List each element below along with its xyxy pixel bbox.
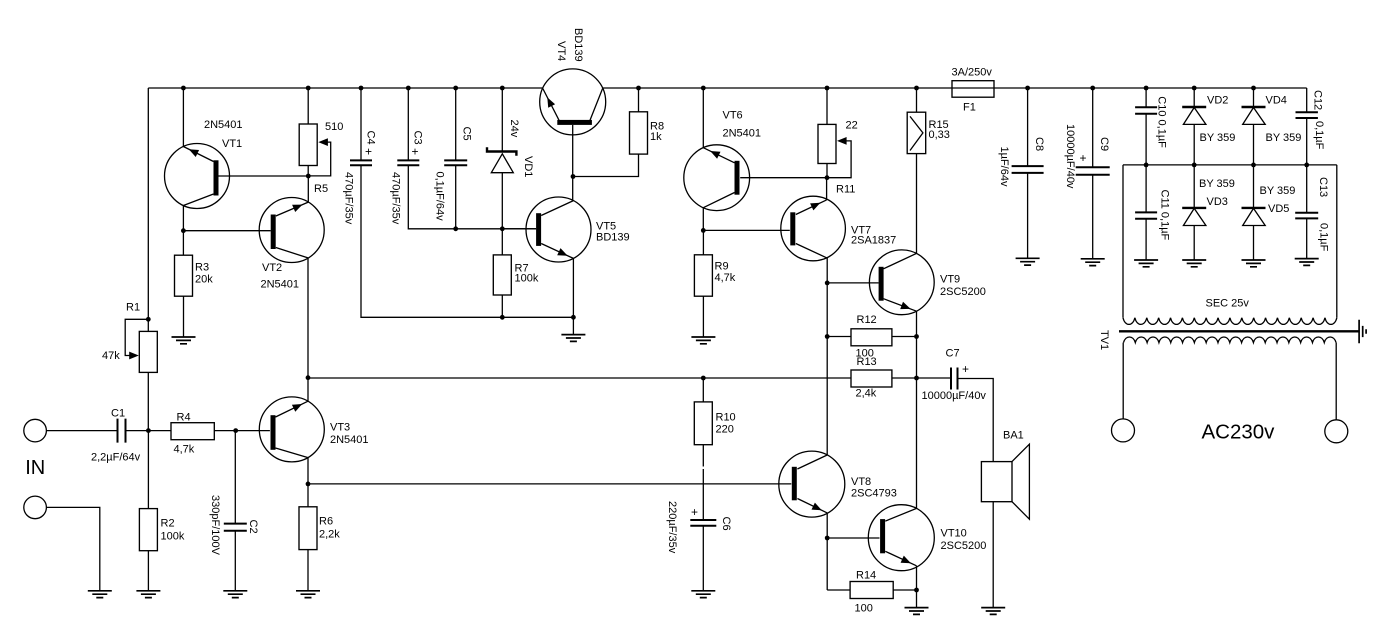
- wire: VD4 to mid rail: [1253, 124, 1255, 164]
- wire: R14 left lead: [827, 589, 850, 591]
- wire: rail to C4: [360, 88, 362, 160]
- resistor R9: [694, 255, 712, 296]
- transistor VT2 (2N5401): [259, 198, 324, 263]
- resistor R2: [139, 509, 157, 551]
- junction: C1/R1/R2/R4 node: [146, 428, 151, 433]
- rectifier diode VD4 (BY 359): [1242, 107, 1266, 124]
- fuse F1 (3A/250v): [952, 81, 994, 98]
- wire: VT1 base to R5 node: [219, 175, 309, 177]
- svg-text:BY 359: BY 359: [1266, 132, 1302, 144]
- resistor R15 (fusible) body: [907, 112, 926, 153]
- svg-text:1k: 1k: [650, 131, 662, 143]
- wire: VT8 emitter down: [826, 513, 828, 590]
- ground (C6): [691, 591, 715, 598]
- svg-text:VT3: VT3: [330, 422, 350, 434]
- transformer TV1 core: [1119, 330, 1359, 332]
- wire: R1 top lead: [147, 319, 149, 331]
- capacitor C3 (electrolytic): [397, 160, 419, 165]
- svg-text:0,33: 0,33: [929, 129, 950, 141]
- svg-text:R5: R5: [314, 183, 328, 195]
- transistor VT8 (2SC4793): [779, 451, 845, 517]
- wire: top positive supply rail: [148, 87, 1306, 89]
- svg-text:22: 22: [846, 120, 858, 132]
- arrow: R5 wiper: [318, 138, 328, 146]
- junction: ground bus/VT5 emitter: [571, 315, 576, 320]
- svg-text:24v: 24v: [508, 120, 520, 138]
- junction: R5/VT1 base/VT2 emitter: [306, 174, 311, 179]
- junction: VT6 collector/R9/VT7 base: [701, 228, 706, 233]
- junction: R7/ground bus: [500, 315, 505, 320]
- junction: rail/C4: [359, 86, 364, 91]
- wire: VT1 collector down: [182, 206, 184, 231]
- svg-text:+: +: [691, 505, 698, 519]
- junction: rail/R8: [636, 86, 641, 91]
- capacitor C4 (electrolytic): [350, 160, 372, 165]
- symbol: R15 chevron: [910, 116, 923, 150]
- svg-text:VT1: VT1: [222, 138, 242, 150]
- wire: node to R3: [182, 231, 184, 256]
- wire: R12 right lead: [892, 336, 917, 338]
- wire: node to R9: [702, 230, 704, 254]
- wire: VT2 base line: [183, 230, 270, 232]
- svg-text:C3: C3: [412, 131, 424, 145]
- wire: R13 right lead: [892, 377, 917, 379]
- wire: R1 wiper bracket: [125, 319, 148, 355]
- wire: VT6 emitter to rail: [702, 88, 704, 148]
- svg-text:C11 0,1µF: C11 0,1µF: [1159, 190, 1171, 241]
- wire: primary right lead: [1335, 343, 1337, 420]
- wire: VT3 collector down to R6: [307, 458, 309, 507]
- wire: C4 to ground bus: [361, 165, 573, 317]
- svg-text:BA1: BA1: [1003, 430, 1024, 442]
- wire: VD2 to mid rail: [1193, 124, 1195, 164]
- svg-text:VT4: VT4: [555, 41, 567, 61]
- wire: VT4 base down to VT5 collector: [572, 125, 574, 201]
- svg-text:+: +: [1080, 151, 1087, 165]
- svg-text:C13: C13: [1317, 177, 1329, 197]
- svg-text:2SC4793: 2SC4793: [851, 488, 897, 500]
- wire: mid rail to VD3: [1193, 165, 1195, 208]
- wire: VT6 base to R11 node: [740, 177, 827, 179]
- wire: R8 to VT4 base node: [573, 154, 639, 176]
- wire: VT2 collector down to feedback node: [307, 258, 309, 401]
- wire: feedback node to R10: [702, 378, 704, 402]
- capacitor C2: [224, 524, 247, 531]
- junction: VT4 base/R8: [571, 174, 576, 179]
- transformer TV1 primary winding: [1124, 337, 1337, 343]
- svg-text:4,7k: 4,7k: [715, 272, 736, 284]
- junction: mid rail/VD2-VD3: [1192, 163, 1197, 168]
- wire: bus to ground stub: [572, 317, 574, 334]
- wire: R5 bottom to base node: [307, 166, 309, 177]
- ground (C13): [1295, 259, 1319, 266]
- svg-text:C5: C5: [461, 127, 473, 141]
- capacitor C5: [444, 160, 467, 165]
- capacitor C10: [1135, 107, 1157, 113]
- svg-text:VD5: VD5: [1268, 203, 1289, 215]
- transistor VT1 (2N5401): [165, 144, 230, 209]
- svg-text:R12: R12: [857, 314, 877, 326]
- svg-text:100: 100: [855, 603, 873, 615]
- transistor VT10 (2SC5200): [868, 505, 934, 571]
- wire: VT6 collector down: [702, 208, 704, 231]
- wire: VT2 emitter lead: [307, 176, 309, 202]
- resistor R8: [630, 112, 648, 154]
- rectifier diode VD2 (BY 359): [1182, 107, 1206, 124]
- wire: rail to VD1: [501, 88, 503, 152]
- wire: VT10 collector from output node: [916, 378, 918, 508]
- ground (C8): [1016, 258, 1040, 265]
- transistor VT3 (2N5401): [259, 397, 324, 462]
- wire: VT5 base from bus: [502, 228, 536, 230]
- wire: primary left lead: [1122, 343, 1124, 419]
- svg-text:470µF/35v: 470µF/35v: [390, 172, 402, 225]
- ground (transformer core, rotated): [1359, 320, 1366, 343]
- wire: C1 to R4 through node: [126, 430, 172, 432]
- wire: rail to C8 to ground: [1027, 88, 1029, 258]
- wire: R11 wiper bracket: [827, 141, 851, 178]
- ground (input jack): [88, 591, 112, 598]
- svg-text:SEC 25v: SEC 25v: [1206, 298, 1250, 310]
- svg-text:VD1: VD1: [522, 156, 534, 177]
- svg-text:C8: C8: [1033, 137, 1045, 151]
- wire: rail corner to C12 to mid rail: [1306, 88, 1308, 165]
- resistor R10: [694, 402, 712, 445]
- svg-text:VT8: VT8: [851, 476, 871, 488]
- wire: R11 bottom lead: [826, 164, 828, 178]
- junction: driver rail/R12: [825, 334, 830, 339]
- wire: input ground jack to ground: [46, 507, 99, 590]
- potentiometer R5 body: [299, 124, 317, 166]
- svg-text:BD139: BD139: [572, 28, 584, 62]
- transistor VT5 (BD139): [526, 197, 591, 262]
- svg-text:47k: 47k: [102, 350, 120, 362]
- junction: rail/R5: [306, 86, 311, 91]
- svg-text:510: 510: [325, 121, 343, 133]
- svg-text:C7: C7: [946, 348, 960, 360]
- wire: rail to VD4: [1253, 88, 1255, 107]
- transistor VT6 (2N5401): [684, 145, 750, 211]
- junction: C5/base bus: [453, 226, 458, 231]
- ground (VT5 emitter bus): [561, 335, 585, 342]
- svg-text:220µF/35v: 220µF/35v: [666, 501, 678, 554]
- rectifier diode VD3 (BY 359): [1182, 208, 1206, 226]
- capacitor C8: [1012, 166, 1044, 173]
- svg-text:2SA1837: 2SA1837: [851, 235, 896, 247]
- svg-text:R6: R6: [319, 516, 333, 528]
- wire: VD1 to base bus and R7: [501, 173, 503, 255]
- svg-text:2N5401: 2N5401: [204, 119, 243, 131]
- transistor VT9 (2SC5200): [869, 250, 934, 315]
- wire: rail to C5: [455, 88, 457, 160]
- svg-text:R9: R9: [715, 261, 729, 273]
- svg-text:2N5401: 2N5401: [330, 434, 369, 446]
- svg-text:470µF/35v: 470µF/35v: [343, 172, 355, 225]
- svg-text:F1: F1: [963, 102, 976, 114]
- wire: C3 to VT5 base bus: [408, 165, 536, 229]
- wire: VT5 emitter to ground bus: [572, 258, 574, 317]
- wire: VD5 to ground: [1253, 226, 1255, 261]
- svg-text:0,1µF: 0,1µF: [1313, 121, 1325, 150]
- ground (R2): [136, 591, 160, 598]
- wire: speaker to ground: [992, 502, 994, 608]
- svg-text:2,2k: 2,2k: [319, 529, 340, 541]
- svg-text:2SC5200: 2SC5200: [940, 286, 986, 298]
- junction: rail/C8: [1025, 86, 1030, 91]
- svg-text:R3: R3: [195, 262, 209, 274]
- wire: VT9 base line: [827, 282, 878, 284]
- resistor R12: [851, 329, 892, 346]
- ground (C2): [223, 591, 247, 598]
- wire: secondary box left side: [1122, 165, 1124, 318]
- svg-text:100k: 100k: [161, 531, 185, 543]
- junction: rail/R11: [825, 86, 830, 91]
- resistor R4: [171, 423, 214, 440]
- svg-text:C12: C12: [1312, 90, 1324, 110]
- svg-text:VT2: VT2: [262, 262, 282, 274]
- svg-text:1µF/64v: 1µF/64v: [998, 147, 1010, 187]
- wire: R7 to ground bus: [501, 295, 503, 317]
- wire: C6 to ground: [702, 526, 704, 591]
- svg-text:R2: R2: [161, 518, 175, 530]
- capacitor C12: [1296, 112, 1318, 118]
- svg-text:BY 359: BY 359: [1199, 178, 1235, 190]
- ground (R3): [172, 337, 196, 344]
- capacitor C1: [118, 419, 126, 443]
- svg-text:2SC5200: 2SC5200: [941, 540, 987, 552]
- svg-text:C4: C4: [365, 131, 377, 145]
- junction: VT2 collector/VT3 emitter/feedback line: [306, 375, 311, 380]
- svg-text:VT6: VT6: [723, 110, 743, 122]
- wire: output ground stub: [916, 590, 918, 608]
- junction: feedback line/R10: [701, 376, 706, 381]
- svg-text:R11: R11: [836, 184, 855, 196]
- wire: VT9 emitter down to output node: [916, 311, 918, 378]
- wire: R4 to VT3 base: [214, 430, 270, 432]
- connector: input jack IN (signal): [24, 419, 47, 442]
- rectifier diode VD5 (BY 359): [1242, 208, 1266, 226]
- wire: R3 to ground: [183, 296, 185, 337]
- svg-text:3A/250v: 3A/250v: [952, 67, 993, 79]
- svg-text:R13: R13: [857, 356, 877, 368]
- wire: VT8 base line from VT3 collector: [308, 483, 791, 485]
- ground (R9): [691, 337, 715, 344]
- wire: rail to R11: [826, 88, 828, 124]
- svg-text:2N5401: 2N5401: [261, 279, 300, 291]
- connector: AC terminal left: [1112, 419, 1135, 442]
- capacitor C6 (electrolytic): [690, 520, 716, 526]
- svg-text:VT10: VT10: [941, 528, 967, 540]
- svg-text:+: +: [412, 145, 419, 159]
- capacitor C7 (electrolytic): [951, 368, 958, 390]
- svg-text:VD3: VD3: [1207, 196, 1228, 208]
- wire: VT7 base line: [703, 229, 790, 231]
- svg-text:C1: C1: [111, 408, 125, 420]
- svg-text:BD139: BD139: [596, 232, 630, 244]
- wire: input jack to C1: [46, 430, 117, 432]
- wire: rail to VD2: [1193, 88, 1195, 107]
- wire: output node to C7: [917, 377, 952, 379]
- junction: rail/R15: [914, 86, 919, 91]
- junction: R4/C2/VT3 base node: [233, 428, 238, 433]
- junction: mid rail/C10: [1144, 163, 1149, 168]
- ground (speaker BA1): [981, 608, 1005, 615]
- wire: R6 to ground: [307, 550, 309, 591]
- junction: rail/VT1 emitter: [181, 86, 186, 91]
- wire: rail to R8: [638, 88, 640, 112]
- junction: VT1 collector/R3/VT2 base: [181, 228, 186, 233]
- wire: rectifier mid rail: [1123, 164, 1337, 166]
- svg-text:220: 220: [716, 424, 734, 436]
- wire: rail to R15: [916, 88, 918, 112]
- junction: R14/VT10 emitter/ground: [914, 588, 919, 593]
- junction: rail/VD1: [500, 86, 505, 91]
- svg-text:VD2: VD2: [1207, 95, 1228, 107]
- ground (VD3): [1182, 260, 1206, 267]
- junction: rail/C10: [1144, 86, 1149, 91]
- svg-text:0,1µF/64v: 0,1µF/64v: [434, 172, 446, 222]
- wire: rail to R5: [307, 88, 309, 124]
- wire: R12 left lead: [827, 336, 851, 338]
- svg-text:R4: R4: [177, 412, 191, 424]
- wire: rail to C9 to ground: [1092, 88, 1094, 259]
- wire: mid rail to VD5: [1253, 165, 1255, 208]
- wire: C2 to ground: [234, 531, 236, 591]
- resistor R6: [299, 507, 317, 550]
- wire: R10 to C6 (with break): [702, 445, 704, 520]
- wire: secondary box right side: [1336, 165, 1338, 318]
- svg-text:2,4k: 2,4k: [856, 388, 877, 400]
- ground (C9): [1081, 259, 1105, 266]
- wire: R15 to VT9 collector: [916, 154, 918, 254]
- resistor R3: [175, 255, 193, 296]
- svg-text:R1: R1: [126, 302, 140, 314]
- transistor VT7 (2SA1837): [781, 196, 846, 261]
- svg-text:VD4: VD4: [1266, 95, 1287, 107]
- wire: rail to C10 to mid rail: [1145, 88, 1147, 165]
- junction: mid rail/C12-C13: [1304, 163, 1309, 168]
- junction: rail/VD2: [1192, 86, 1197, 91]
- capacitor C13: [1295, 213, 1318, 219]
- wire: mid rail to C13 to ground: [1306, 165, 1308, 259]
- wire: R5 wiper bracket: [308, 142, 330, 176]
- svg-text:R14: R14: [856, 570, 876, 582]
- wire: rail to C3: [407, 88, 409, 160]
- svg-text:IN: IN: [25, 457, 45, 479]
- potentiometer R1 body: [139, 331, 157, 372]
- wire: VT10 base line: [827, 537, 879, 539]
- potentiometer R11 body: [818, 124, 836, 163]
- wire: VT7 collector rail down to VT8: [826, 258, 828, 455]
- ground (VD5): [1242, 260, 1266, 267]
- junction: VT9 emitter/R12: [914, 334, 919, 339]
- transformer TV1 secondary winding (SEC 25v): [1123, 318, 1337, 325]
- junction: rail/C3: [406, 86, 411, 91]
- junction: output node R13/C7/VT9/VT10: [914, 376, 919, 381]
- arrow: R11 wiper: [837, 137, 847, 145]
- wire: R9 to ground: [702, 296, 704, 337]
- zener diode VD1 (24v): [487, 147, 516, 173]
- connector: AC terminal right: [1325, 420, 1348, 443]
- svg-text:BY 359: BY 359: [1200, 132, 1236, 144]
- svg-text:0,1µF: 0,1µF: [1318, 223, 1330, 252]
- junction: VD1/base bus: [500, 226, 505, 231]
- junction: mid rail/VD4-VD5: [1251, 163, 1256, 168]
- capacitor C9 (electrolytic): [1076, 167, 1110, 175]
- svg-text:AC230v: AC230v: [1202, 421, 1276, 444]
- svg-text:C10 0,1µF: C10 0,1µF: [1156, 96, 1168, 148]
- svg-text:10000µF/40v: 10000µF/40v: [1064, 124, 1076, 189]
- svg-text:+: +: [365, 145, 372, 159]
- junction: VT7 collector/VT9 base: [825, 281, 830, 286]
- svg-text:2N5401: 2N5401: [723, 128, 762, 140]
- svg-text:100k: 100k: [515, 273, 539, 285]
- junction: rail/VT6 emitter: [701, 86, 706, 91]
- svg-text:2,2µF/64v: 2,2µF/64v: [91, 452, 141, 464]
- wire: VT7 emitter lead: [826, 178, 828, 200]
- resistor R14: [850, 582, 893, 599]
- wire: VD3 to ground: [1193, 226, 1195, 261]
- junction: R1 wiper to top: [146, 317, 151, 322]
- svg-text:BY 359: BY 359: [1260, 185, 1296, 197]
- ground (R6): [296, 591, 320, 598]
- junction: VT8 emitter/VT10 base: [825, 536, 830, 541]
- wire: R14 right lead: [893, 589, 916, 591]
- resistor R7: [493, 255, 511, 295]
- junction: rail/C9: [1090, 86, 1095, 91]
- wire: C5 to base bus: [455, 165, 457, 229]
- wire: VT1 emitter to rail: [182, 88, 184, 147]
- wire: node to R2 and R2 to ground: [147, 431, 149, 591]
- svg-text:R10: R10: [716, 412, 736, 424]
- svg-text:C9: C9: [1098, 137, 1110, 151]
- junction: R11/VT6 base/VT7 emitter: [825, 175, 830, 180]
- wire: VT10 emitter to R14 node: [916, 566, 918, 590]
- svg-text:VT9: VT9: [940, 274, 960, 286]
- junction: VT3 collector/VT8 base line: [306, 482, 311, 487]
- resistor R13: [851, 370, 892, 387]
- connector: input jack IN (ground): [24, 496, 47, 519]
- wire: feedback line VT3 emitter to R13: [308, 377, 851, 379]
- junction: rail/VD4: [1251, 86, 1256, 91]
- junction: rail/C5: [453, 86, 458, 91]
- svg-text:20k: 20k: [195, 274, 213, 286]
- svg-text:+: +: [962, 362, 969, 376]
- svg-text:330pF/100V: 330pF/100V: [209, 495, 221, 556]
- svg-text:10000µF/40v: 10000µF/40v: [922, 390, 987, 402]
- transistor VT4 (BD139): [540, 69, 606, 135]
- svg-text:C2: C2: [247, 520, 259, 534]
- capacitor C11: [1135, 212, 1157, 218]
- svg-text:C6: C6: [720, 517, 732, 531]
- speaker BA1: [981, 444, 1029, 519]
- svg-text:TV1: TV1: [1098, 330, 1110, 350]
- wire: node to C2: [234, 431, 236, 524]
- ground (output stage): [905, 608, 929, 615]
- arrow: R1 wiper: [129, 352, 139, 360]
- wire: C7 to speaker: [958, 379, 994, 462]
- wire: left vertical from rail to R1: [147, 88, 149, 431]
- ground (C11): [1134, 260, 1158, 267]
- wire: mid rail to C11 to ground: [1145, 165, 1147, 260]
- svg-text:4,7k: 4,7k: [174, 444, 195, 456]
